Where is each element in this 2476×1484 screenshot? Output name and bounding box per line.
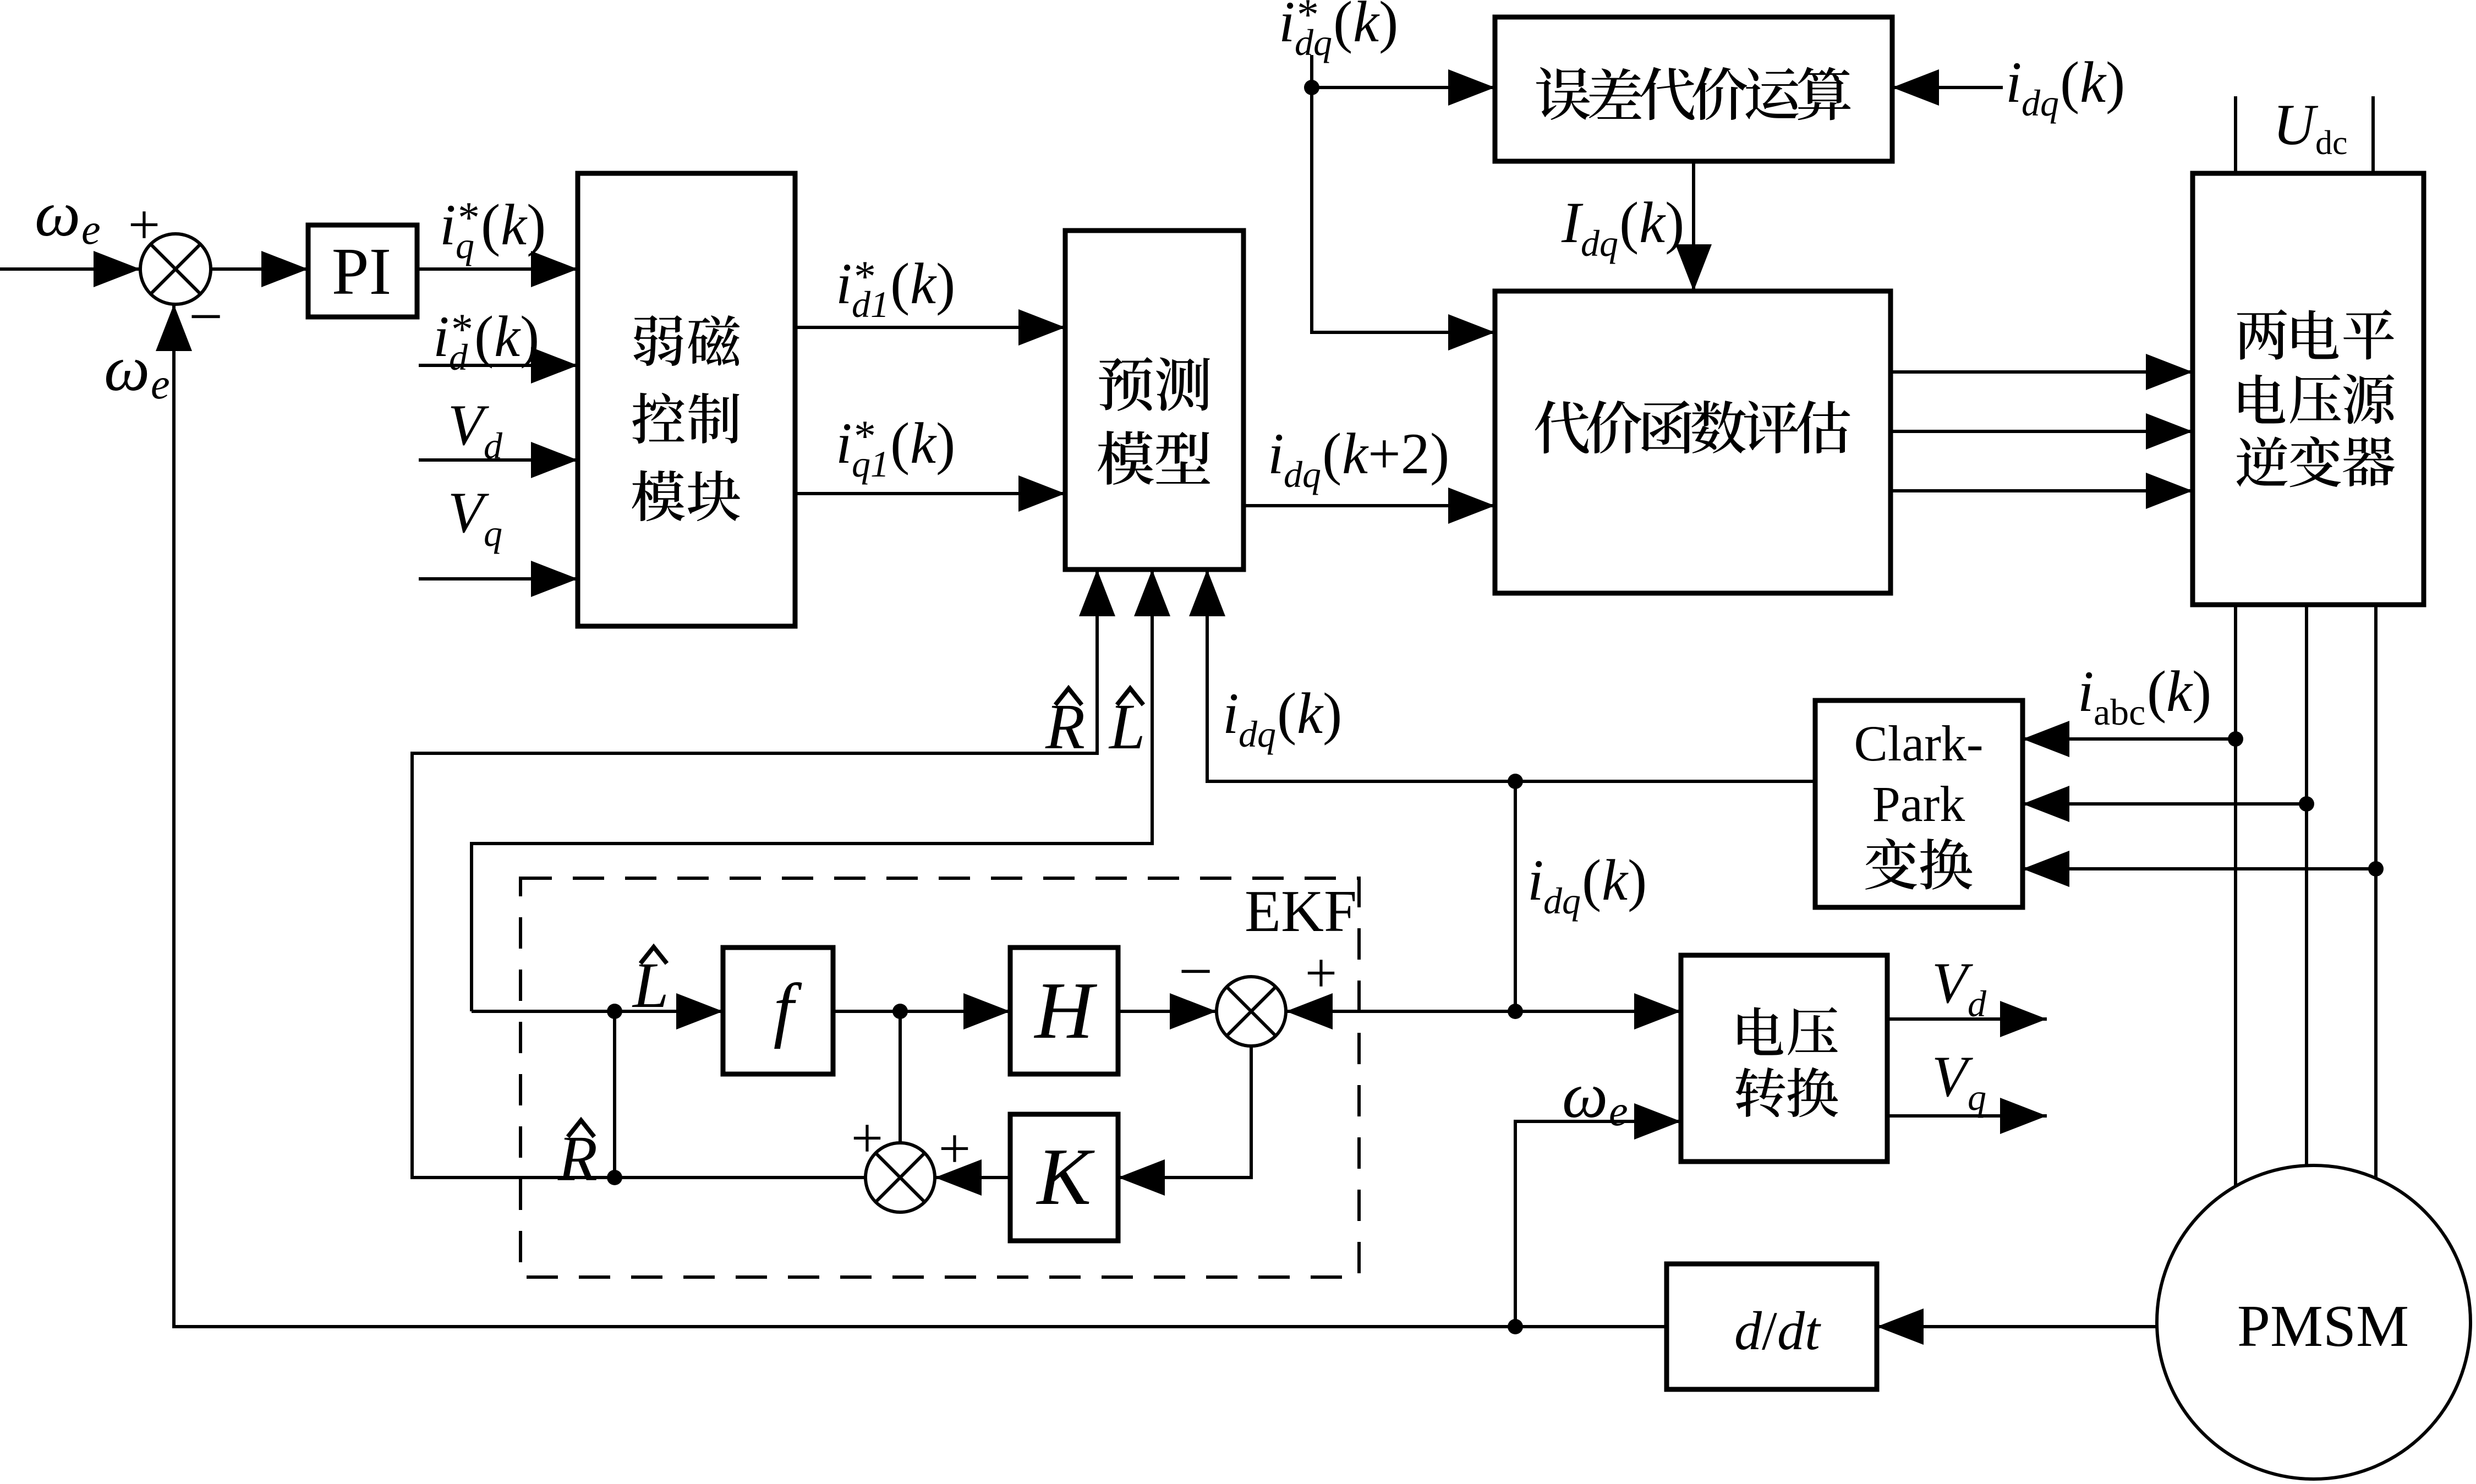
svg-text:V: V (1932, 1044, 1973, 1109)
svg-text:(: ( (890, 251, 910, 316)
svg-text:I: I (1561, 190, 1584, 255)
svg-text:+: + (1305, 941, 1338, 1005)
arrow idq* into cost function evaluation (1448, 314, 1495, 351)
wire idq* to error-cost block (1312, 86, 1495, 89)
summing junction S3 (865, 1143, 935, 1212)
svg-text:): ) (936, 251, 955, 316)
svg-text:): ) (2192, 659, 2211, 724)
svg-text:EKF: EKF (1245, 879, 1357, 944)
svg-text:PMSM: PMSM (2237, 1294, 2409, 1359)
arrow idq into EKF summing junction S2 (1286, 993, 1333, 1030)
svg-text:(: ( (2060, 50, 2079, 114)
wire phase c (2374, 605, 2378, 1178)
svg-text:(: ( (474, 304, 494, 369)
svg-text:V: V (1932, 951, 1973, 1015)
svg-text:k: k (1602, 848, 1629, 912)
arrow phase a into Clark-Park (2023, 721, 2069, 757)
wire Vd input (419, 458, 578, 462)
svg-text:dt: dt (1777, 1300, 1821, 1361)
wire phase a (2234, 605, 2237, 1186)
svg-text:ω: ω (35, 178, 80, 250)
node Lhat tap (607, 1004, 622, 1019)
svg-text:k: k (1353, 0, 1380, 54)
EKF boundary (dashed) (521, 878, 1359, 1277)
arrow into S3 right side (935, 1159, 982, 1196)
wire iabc tap a to Clark-Park (2023, 737, 2236, 741)
svg-text:i: i (440, 193, 456, 257)
wire Udc right lead (2371, 96, 2375, 173)
summing junction S2 (1217, 977, 1286, 1046)
arrow into f (676, 993, 723, 1030)
wire Rhat feedback to prediction model (412, 569, 1097, 1178)
arrow phase b into Clark-Park (2023, 786, 2069, 822)
block two-level voltage source inverter (2193, 173, 2424, 605)
arrow gate signal 3 (2146, 473, 2193, 509)
svg-text:k: k (910, 251, 937, 316)
svg-text:i: i (2006, 50, 2022, 114)
arrow Rhat into prediction model bottom (1079, 569, 1115, 616)
wire idq(k+2) to cost function evaluation (1244, 504, 1495, 507)
svg-text:k: k (2166, 659, 2193, 724)
block d/dt (1667, 1264, 1877, 1389)
svg-text:(: ( (481, 193, 500, 257)
svg-text:i: i (1527, 848, 1543, 912)
label 模块 (632, 470, 684, 521)
wire Vq output (1887, 1114, 2047, 1118)
svg-text:/: / (1762, 1300, 1777, 1361)
svg-text:dq: dq (1284, 453, 1321, 495)
svg-text:(: ( (890, 411, 910, 475)
arrow into d/dt (1877, 1308, 1924, 1345)
svg-text:i: i (1279, 0, 1295, 54)
arrow Vd output (2000, 1001, 2047, 1037)
svg-text:): ) (1430, 421, 1449, 486)
label 电压源 (2239, 374, 2285, 423)
arrow feedback into S1 bottom (156, 304, 192, 351)
label 误差代价运算 (1536, 67, 1590, 120)
block field-weakening control module (578, 173, 795, 626)
label 代价函数评估 (1535, 401, 1589, 453)
label 预测 (1099, 357, 1152, 411)
svg-text:H: H (1034, 966, 1098, 1056)
svg-text:k: k (1639, 190, 1666, 255)
svg-text:k: k (910, 411, 937, 475)
wire idq(k) from Clark-Park to prediction model (1207, 569, 1815, 781)
svg-text:q1: q1 (852, 443, 889, 485)
svg-text:): ) (1628, 848, 1647, 912)
arrow iq* into field-weakening block (531, 251, 578, 287)
arrow id* into field-weakening block (531, 347, 578, 384)
wire K to S3 (935, 1176, 1010, 1179)
label 电压 (1738, 1007, 1783, 1055)
svg-text:Clark-: Clark- (1854, 715, 1983, 771)
svg-text:V: V (448, 480, 489, 545)
svg-text:i: i (836, 251, 852, 316)
label 控制 (632, 393, 684, 443)
label 变换 of Clark-Park (1865, 838, 1917, 890)
svg-text:k: k (1297, 681, 1324, 746)
label 逆变器 (2237, 436, 2288, 486)
arrow Idq(k) into cost function evaluation (1675, 244, 1712, 291)
svg-text:abc: abc (2094, 691, 2145, 733)
svg-text:ω: ω (1562, 1059, 1608, 1131)
wire Lhat-Rhat vertical link (613, 1011, 616, 1178)
arrow into summing junction S1 (94, 251, 140, 287)
arrow id1* into prediction model (1018, 309, 1065, 346)
label 弱磁 (633, 315, 683, 366)
arrow idq(k+2) into cost function evaluation (1448, 488, 1495, 524)
label 两电平 (2237, 309, 2287, 360)
wire gate signal 2 (1891, 430, 2193, 433)
svg-text:−: − (1179, 938, 1213, 1005)
svg-text:d: d (1968, 983, 1987, 1025)
svg-text:i: i (433, 304, 449, 369)
svg-text:ω: ω (104, 332, 150, 404)
svg-text:(: ( (1277, 681, 1296, 746)
node phase b tap (2299, 796, 2314, 812)
wire omega-e tap up into voltage conversion (1515, 1121, 1681, 1327)
wire idq* vertical with branches (1312, 55, 1495, 332)
svg-text:V: V (448, 393, 489, 457)
svg-text:k: k (501, 193, 528, 257)
svg-text:i: i (836, 411, 852, 475)
svg-text:): ) (527, 193, 546, 257)
wire iabc tap b to Clark-Park (2023, 802, 2307, 806)
node idq* branch (1304, 80, 1319, 95)
svg-text:dq: dq (1581, 222, 1618, 264)
wire gate signal 3 (1891, 489, 2193, 492)
node phase a tap (2228, 731, 2243, 747)
wire id1* to prediction model (795, 326, 1065, 329)
wire idq(k) into error-cost right side (1892, 86, 2003, 89)
block cost function evaluation (1495, 291, 1891, 593)
svg-text:dq: dq (1295, 21, 1332, 63)
svg-text:k: k (494, 304, 521, 369)
svg-text:Park: Park (1872, 776, 1965, 832)
arrow idq* into error-cost block (1448, 69, 1495, 106)
svg-text:q: q (484, 512, 502, 554)
svg-text:k: k (1342, 421, 1369, 486)
arrow into S2 left (1170, 993, 1217, 1030)
block PI (308, 225, 417, 317)
label 模型 (1098, 431, 1154, 485)
svg-text:): ) (1665, 190, 1684, 255)
svg-text:): ) (1323, 681, 1342, 746)
node omega-e tap to voltage-conversion (1508, 1319, 1523, 1334)
svg-text:(: ( (2147, 659, 2166, 724)
wire PI to field-weakening block (iq*) (417, 267, 578, 271)
svg-text:−: − (189, 283, 223, 350)
svg-text:): ) (2106, 50, 2125, 114)
svg-text:U: U (2273, 92, 2319, 157)
arrow Vq into field-weakening block (531, 561, 578, 597)
wire idq branch vertical (1514, 781, 1517, 1011)
block H (1010, 948, 1118, 1074)
arrow phase c into Clark-Park (2023, 851, 2069, 887)
svg-text:PI: PI (332, 234, 391, 309)
summing junction S1 (140, 234, 211, 304)
svg-text:): ) (1379, 0, 1398, 54)
block Clark-Park transform (1815, 700, 2023, 907)
svg-text:): ) (520, 304, 539, 369)
wire Lhat feedback up to prediction model (472, 569, 1152, 1011)
node f output branch (892, 1004, 908, 1019)
wire S1 to PI (211, 267, 308, 271)
wire iq1* to prediction model (795, 492, 1065, 495)
wire omega-e input to summing junction S1 (0, 267, 140, 271)
svg-text:q: q (456, 224, 474, 266)
svg-text:): ) (936, 411, 955, 475)
arrow into H (963, 993, 1010, 1030)
block K (1010, 1114, 1118, 1241)
svg-text:+: + (128, 193, 161, 256)
svg-text:e: e (151, 360, 170, 408)
wire idq to EKF sum and voltage conversion (1286, 1010, 1681, 1013)
svg-text:d: d (449, 336, 468, 378)
arrow omega-e into voltage conversion (1634, 1103, 1681, 1140)
wire f to H (833, 1010, 1010, 1013)
svg-text:(: ( (1322, 421, 1341, 486)
svg-text:(: ( (1619, 190, 1639, 255)
arrow into K right side (1118, 1159, 1165, 1196)
svg-text:q: q (1968, 1076, 1986, 1118)
wire phase b (2305, 605, 2308, 1165)
wire speed feedback from d/dt to S1 (174, 304, 1667, 1327)
arrow gate signal 2 (2146, 413, 2193, 450)
block f (723, 948, 833, 1074)
arrow iq1* into prediction model (1018, 475, 1065, 512)
svg-text:K: K (1036, 1132, 1095, 1222)
arrow gate signal 1 (2146, 354, 2193, 390)
wire id* input (419, 364, 578, 367)
arrow Lhat into prediction model bottom (1134, 569, 1170, 616)
wire iabc tap c to Clark-Park (2023, 867, 2376, 870)
wire gate signal 1 (1891, 370, 2193, 374)
svg-text:i: i (1223, 681, 1239, 746)
node idq branch down (1508, 774, 1523, 789)
node phase c tap (2368, 861, 2384, 877)
svg-text:dq: dq (2022, 82, 2059, 124)
block error cost computation (1495, 17, 1892, 161)
svg-text:dc: dc (2315, 124, 2348, 162)
arrow Vd into field-weakening block (531, 442, 578, 478)
svg-text:d: d (484, 425, 503, 467)
svg-text:dq: dq (1239, 713, 1276, 755)
svg-text:k: k (2080, 50, 2107, 114)
label 转换 (1735, 1067, 1785, 1117)
svg-text:+: + (939, 1117, 971, 1180)
block prediction model (1065, 231, 1244, 569)
svg-text:d: d (1734, 1300, 1762, 1361)
svg-text:+2: +2 (1368, 421, 1430, 486)
wire Idq(k) down to cost function evaluation (1692, 161, 1695, 291)
wire Vq input (419, 577, 578, 581)
svg-text:i: i (1268, 421, 1284, 486)
wire f input (472, 1010, 723, 1013)
svg-text:dq: dq (1543, 880, 1581, 922)
node idq to EKF and voltage-conversion (1508, 1004, 1523, 1019)
arrow Vq output (2000, 1098, 2047, 1134)
wire PMSM to d/dt (1877, 1325, 2157, 1328)
block voltage conversion (1681, 955, 1887, 1162)
arrow idq into voltage conversion (1634, 993, 1681, 1030)
arrow idq(k) into prediction model bottom (1189, 569, 1225, 616)
wire Udc left lead (2234, 96, 2237, 173)
wire S2 down to K (1118, 1046, 1251, 1178)
svg-text:e: e (1609, 1087, 1628, 1135)
svg-text:+: + (851, 1107, 884, 1170)
wire H to S2 (1118, 1010, 1217, 1013)
svg-text:e: e (81, 205, 101, 253)
arrow idq(k) into error-cost block (1892, 69, 1939, 106)
svg-text:d1: d1 (852, 283, 889, 325)
svg-text:i: i (2078, 659, 2094, 724)
svg-text:(: ( (1333, 0, 1352, 54)
PMSM circle (2157, 1165, 2470, 1479)
wire Vd output (1887, 1017, 2047, 1021)
node Rhat tap (607, 1170, 622, 1185)
wire branch down to summing junction S3 (899, 1011, 902, 1143)
arrow into PI (261, 251, 308, 287)
svg-text:(: ( (1582, 848, 1601, 912)
